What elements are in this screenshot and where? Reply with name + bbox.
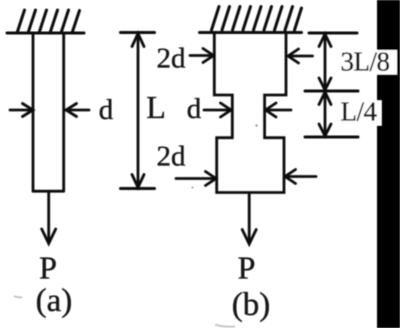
svg-text:P: P bbox=[39, 250, 57, 286]
svg-text:2d: 2d bbox=[157, 43, 187, 75]
svg-text:L/4: L/4 bbox=[341, 97, 378, 127]
svg-text:3L/8: 3L/8 bbox=[341, 47, 390, 77]
svg-text:(b): (b) bbox=[232, 287, 270, 323]
svg-text:d: d bbox=[187, 93, 202, 125]
svg-text:L: L bbox=[146, 89, 166, 125]
svg-text:(a): (a) bbox=[36, 283, 73, 319]
svg-text:2d: 2d bbox=[157, 141, 187, 173]
svg-text:P: P bbox=[238, 250, 256, 286]
svg-text:d: d bbox=[99, 94, 114, 126]
